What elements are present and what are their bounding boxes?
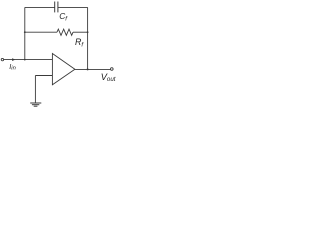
wire noninverting input	[35, 75, 52, 77]
wire top to capacitor	[25, 6, 55, 8]
current arrow	[12, 58, 15, 61]
svg-text:Vout: Vout	[101, 72, 116, 83]
wire resistor to right vertical	[73, 31, 88, 33]
svg-text:Rf: Rf	[75, 37, 84, 48]
wire right vertical	[87, 7, 89, 69]
input terminal	[1, 58, 3, 60]
wire ground stem	[34, 76, 36, 103]
output terminal	[111, 68, 114, 71]
svg-text:Cf: Cf	[59, 11, 68, 22]
node junction inverting input	[24, 59, 26, 61]
op-amp U1	[52, 54, 75, 85]
wire middle to resistor	[25, 31, 57, 33]
capacitor Cf	[55, 2, 58, 13]
svg-text:Iin: Iin	[9, 62, 16, 72]
wire capacitor to top-right corner	[58, 6, 88, 8]
node junction resistor left	[24, 31, 26, 33]
wire input	[4, 59, 53, 61]
wire left vertical	[24, 7, 26, 59]
resistor Rf	[57, 29, 73, 35]
ground	[30, 103, 41, 106]
node junction resistor right	[87, 31, 89, 33]
node junction output	[87, 68, 89, 70]
wire output	[75, 68, 111, 70]
